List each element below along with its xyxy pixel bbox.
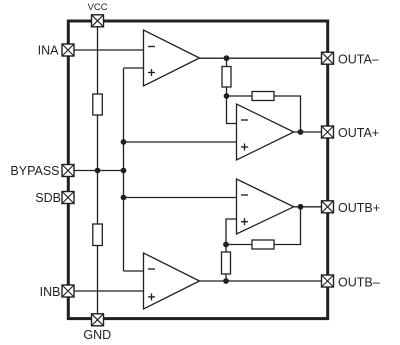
label INB [40, 285, 61, 299]
svg-text:INB: INB [40, 285, 61, 299]
wire VCC column middle (R5 to R6) [97, 115, 99, 224]
wire op-amp B inverting input to bypass column [124, 270, 144, 272]
wire bias column lower (R6 to GND pin) [97, 246, 99, 320]
pin VCC [92, 15, 104, 27]
op-amp U1 (channel A main) [144, 30, 200, 86]
label OUTB+ [338, 201, 380, 215]
wire R1 to node A2 [226, 87, 228, 96]
wire INA input (pin to op-amp A inverting input) [68, 49, 144, 51]
svg-text:BYPASS: BYPASS [10, 164, 59, 178]
resistor R6 (bias lower) [93, 224, 103, 246]
pin GND [92, 314, 104, 326]
resistor R1 (channel A divider) [222, 67, 231, 88]
junction node OUTB+ [298, 204, 304, 210]
op-amp U2 (channel A inverter) [237, 104, 294, 160]
junction node B2 [223, 242, 229, 248]
junction node A2 [224, 93, 230, 99]
svg-text:OUTA–: OUTA– [338, 52, 379, 66]
resistor R2 (channel A feedback) [252, 92, 274, 101]
wire VCC column upper (VCC pin to R5) [97, 21, 99, 94]
label INA [38, 43, 60, 57]
wire branch to op-amp U3 inverting input [124, 197, 237, 199]
label OUTA- [338, 52, 379, 66]
wire INB input (pin to op-amp B non-inverting input) [68, 290, 144, 292]
op-amp U4 (channel B main) [144, 253, 200, 309]
resistor R3 (channel B feedback) [252, 240, 274, 249]
pin BYPASS [62, 165, 74, 177]
label OUTB- [338, 275, 380, 289]
junction bypass to U2 [121, 139, 127, 145]
pin OUTB- [322, 275, 334, 287]
resistor R4 (channel B divider) [222, 252, 231, 274]
junction node OUTA+ [298, 129, 304, 135]
wire node A2 to R2 [227, 95, 253, 97]
label VCC [88, 2, 108, 13]
label OUTA+ [338, 126, 379, 140]
wire branch to op-amp U2 non-inverting input [124, 141, 237, 143]
svg-text:VCC: VCC [88, 2, 108, 13]
svg-text:SDB: SDB [35, 191, 61, 205]
pin INA [62, 44, 74, 56]
svg-text:OUTB+: OUTB+ [338, 201, 380, 215]
pin OUTA+ [322, 126, 334, 138]
wire R2 to op-amp U2 output node [274, 96, 301, 132]
wire node A2 to op-amp U2 inverting input [227, 96, 237, 124]
wire R3 to op-amp U3 output node [274, 207, 301, 245]
svg-text:GND: GND [83, 328, 111, 342]
svg-text:OUTA+: OUTA+ [338, 126, 379, 140]
op-amp U3 (channel B inverter) [237, 179, 294, 234]
pin OUTA- [322, 52, 334, 64]
junction node A out [224, 55, 230, 61]
junction bypass to U3 [121, 195, 127, 201]
svg-text:OUTB–: OUTB– [338, 275, 380, 289]
junction bypass column [121, 168, 127, 174]
wire bypass column x=123.5 [123, 68, 125, 271]
wire op-amp U4 output to OUTB- pin [200, 280, 328, 282]
pin INB [62, 285, 74, 297]
wire node A out to R1 [226, 58, 228, 66]
junction node B out [223, 278, 229, 284]
wire op-amp U1 output to OUTA- pin [200, 57, 328, 59]
label BYPASS [10, 164, 59, 178]
IC boundary rectangle [68, 21, 327, 319]
wire op-amp U3 output to OUTB+ pin [294, 206, 328, 208]
resistor R5 (VCC bias upper) [93, 94, 103, 115]
junction VCC bias / bypass [95, 168, 101, 174]
wire BYPASS pin to bypass column [68, 170, 124, 172]
wire op-amp U3 non-inverting input to node B2 [226, 219, 237, 245]
wire op-amp A non-inverting input to bypass column [124, 67, 144, 69]
label GND [83, 328, 111, 342]
wire R4 to node B out [225, 274, 227, 281]
wire op-amp U2 output to OUTA+ pin [294, 131, 328, 133]
pin SDB [62, 192, 74, 204]
label SDB [35, 191, 61, 205]
wire node B2 to R3 [226, 244, 252, 246]
svg-text:INA: INA [38, 43, 60, 57]
wire node B2 to R4 [225, 245, 227, 253]
pin OUTB+ [322, 201, 334, 213]
